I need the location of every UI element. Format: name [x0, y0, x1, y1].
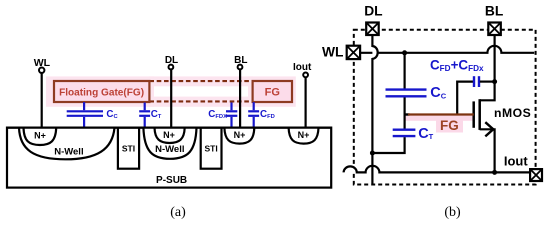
svg-text:BL: BL [234, 55, 247, 66]
svg-text:CC: CC [430, 85, 446, 101]
svg-text:STI: STI [204, 144, 217, 154]
svg-text:CC: CC [106, 109, 118, 120]
svg-text:N+: N+ [163, 130, 175, 140]
svg-text:WL: WL [322, 45, 343, 60]
svg-text:CFD+CFDx: CFD+CFDx [430, 57, 484, 73]
svg-text:(b): (b) [444, 205, 461, 220]
svg-text:(a): (a) [170, 205, 186, 220]
svg-text:N+: N+ [234, 130, 246, 140]
svg-text:CFD: CFD [260, 109, 275, 120]
svg-text:CT: CT [151, 109, 162, 120]
svg-text:DL: DL [364, 3, 382, 18]
svg-text:N-Well: N-Well [155, 144, 184, 155]
svg-text:CT: CT [418, 126, 433, 142]
svg-text:CFDX: CFDX [208, 109, 227, 120]
svg-text:N+: N+ [34, 130, 46, 140]
svg-text:FG: FG [265, 87, 280, 99]
svg-text:BL: BL [485, 3, 503, 18]
svg-text:N-Well: N-Well [54, 146, 83, 157]
svg-text:Iout: Iout [504, 154, 528, 169]
svg-text:Iout: Iout [293, 62, 312, 73]
svg-text:FG: FG [440, 118, 459, 133]
svg-text:N+: N+ [298, 130, 310, 140]
svg-text:nMOS: nMOS [494, 106, 531, 120]
svg-text:STI: STI [122, 144, 135, 154]
svg-text:WL: WL [34, 57, 51, 69]
svg-text:P-SUB: P-SUB [156, 175, 187, 186]
svg-text:Floating Gate(FG): Floating Gate(FG) [59, 88, 144, 99]
svg-text:DL: DL [165, 55, 178, 66]
